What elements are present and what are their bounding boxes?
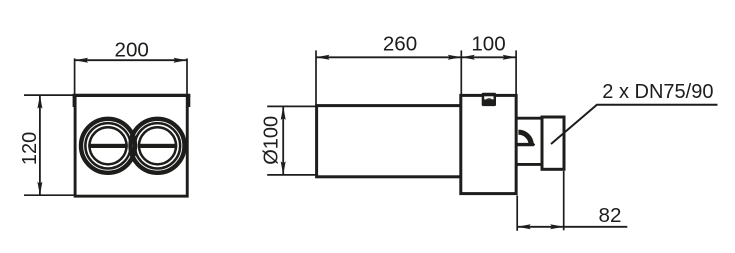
- svg-text:120: 120: [19, 132, 41, 165]
- dim 260 line: [316, 56, 461, 58]
- dim 100 arrow right: [503, 55, 517, 60]
- dim 82 line: [517, 226, 627, 228]
- dim 260 extension line left: [315, 50, 317, 105]
- dim 120 arrow bottom: [37, 182, 42, 196]
- svg-text:100: 100: [471, 32, 505, 55]
- dim 120 extension line bottom: [24, 194, 77, 196]
- latch foot: [517, 143, 535, 146]
- connector neck top line: [517, 117, 542, 120]
- dim 200 line: [75, 59, 187, 61]
- left socket grip bar: [88, 144, 127, 148]
- dim 200 extension line right: [186, 58, 188, 94]
- svg-text:200: 200: [115, 38, 149, 61]
- svg-text:2 x DN75/90: 2 x DN75/90: [602, 81, 713, 103]
- dim D100 extension line bottom: [267, 174, 317, 176]
- left socket circle: [81, 119, 135, 173]
- svg-text:82: 82: [599, 204, 622, 227]
- dim 120 arrow top: [37, 95, 42, 109]
- dim 260 arrow left: [316, 55, 330, 60]
- dim 82 extension line right: [563, 171, 565, 230]
- dim 82 extension line left: [516, 196, 518, 231]
- connector neck bottom line: [517, 163, 542, 166]
- dim 100 line: [461, 56, 516, 58]
- dim D100 arrow top: [281, 106, 286, 120]
- dim 200 arrow left: [75, 58, 89, 63]
- dim 200 arrow right: [174, 58, 188, 63]
- svg-text:260: 260: [383, 32, 417, 55]
- latch arc: [518, 132, 531, 145]
- dim D100 extension line top: [267, 105, 317, 107]
- dim 200 extension line left: [74, 58, 76, 94]
- dim 260/100 shared extension line: [460, 50, 462, 94]
- plenum box: [461, 95, 516, 193]
- dim 100 arrow left: [461, 55, 475, 60]
- dim 100 extension line right: [515, 50, 517, 94]
- front-view box outline: [73, 95, 191, 196]
- left lid tab: [73, 94, 76, 107]
- svg-text:Ø100: Ø100: [260, 116, 282, 165]
- duct tube: [317, 106, 463, 177]
- right socket circle: [131, 119, 185, 173]
- dim D100 line: [282, 106, 284, 174]
- DN75/90 socket: [542, 117, 564, 169]
- mounting clip on box top: [482, 93, 496, 106]
- dim 82 arrow right: [550, 224, 564, 229]
- right lid tab: [188, 94, 191, 107]
- dim 82 arrow left: [517, 224, 531, 229]
- dim 260 arrow right: [448, 55, 462, 60]
- dim 120 line: [39, 95, 41, 195]
- right socket grip bar: [138, 144, 177, 148]
- dim D100 arrow bottom: [281, 161, 286, 175]
- dim 120 extension line top: [24, 94, 77, 96]
- leader line for label: [551, 105, 718, 144]
